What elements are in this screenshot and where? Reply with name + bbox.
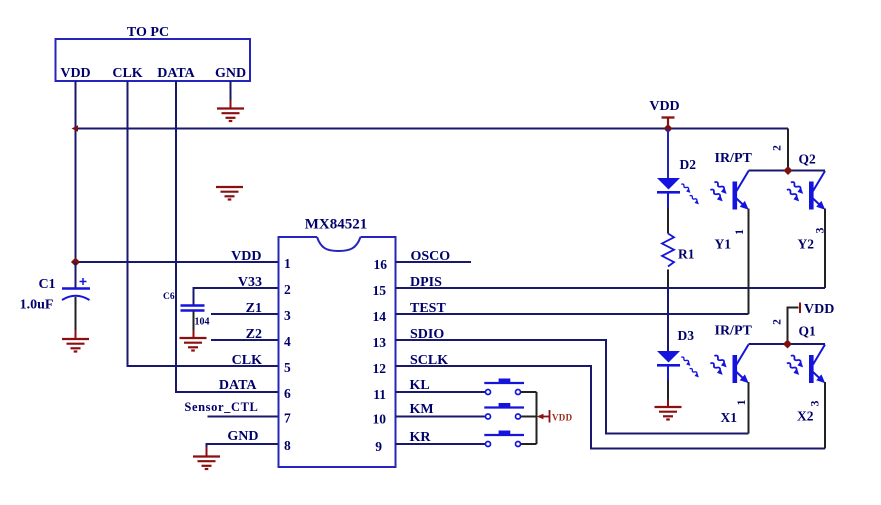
U1 pin numbers right: [373, 257, 388, 454]
svg-text:2: 2: [772, 319, 784, 325]
junction Q1 bus: [783, 339, 792, 348]
svg-text:104: 104: [195, 317, 210, 328]
wire VDD rail across top: [76, 128, 789, 130]
wire GND from U1 pin 8 to ground: [207, 444, 279, 448]
svg-text:8: 8: [284, 438, 291, 453]
wire button bus vertical: [536, 392, 538, 444]
wire D3 cathode to ground: [667, 366, 669, 407]
svg-text:3: 3: [810, 400, 822, 406]
wire Q2 riser from rail: [787, 129, 789, 171]
junction Q2 bus: [783, 166, 792, 175]
svg-text:D2: D2: [680, 157, 697, 172]
wire SDIO to X1 emitter: [396, 340, 749, 434]
phototransistor X1: [709, 345, 749, 384]
power VDD top right: [649, 99, 679, 129]
svg-text:Y2: Y2: [798, 237, 815, 252]
ground under C6: [180, 338, 207, 351]
svg-text:KL: KL: [410, 378, 430, 393]
ground under U1 pin 8: [193, 457, 220, 470]
wire V33 from U1 pin 2 to C6: [194, 288, 279, 305]
svg-text:IR/PT: IR/PT: [715, 151, 753, 166]
pushbutton KR: [484, 431, 524, 447]
svg-text:R1: R1: [678, 247, 695, 262]
op IC U1 MX84521 body: [279, 217, 396, 468]
svg-text:Z1: Z1: [246, 301, 262, 316]
ground under C1: [62, 339, 89, 352]
svg-text:VDD: VDD: [804, 302, 834, 317]
wire VDD from connector down to node A: [75, 81, 77, 262]
svg-text:6: 6: [284, 386, 291, 401]
connector J1 TO PC box: [56, 25, 251, 81]
diode D2: [657, 178, 701, 206]
svg-text:VDD: VDD: [231, 249, 261, 264]
svg-text:14: 14: [373, 309, 387, 324]
svg-text:1: 1: [734, 229, 746, 235]
svg-text:3: 3: [815, 227, 827, 233]
svg-text:1.0uF: 1.0uF: [20, 298, 54, 313]
svg-text:GND: GND: [215, 66, 246, 81]
svg-text:11: 11: [373, 387, 386, 402]
svg-text:VDD: VDD: [60, 66, 90, 81]
wire TEST to Y1 emitter: [396, 313, 749, 315]
svg-text:16: 16: [374, 257, 388, 272]
wire KM from U1 pin 10: [396, 416, 486, 418]
wire KR from U1 pin 9: [396, 443, 486, 445]
wire GND from connector down to ground: [230, 81, 232, 101]
power VDD at Q1: [788, 302, 835, 344]
junction VDD rail at D2: [663, 124, 672, 133]
wire DATA from connector down and right to U1 pin 6: [176, 81, 279, 392]
svg-text:1: 1: [736, 399, 748, 405]
svg-text:12: 12: [373, 361, 387, 376]
wire DPIS to Y2 emitter: [396, 287, 826, 289]
U1 left pin net labels: [184, 249, 262, 444]
phototransistor X2: [785, 345, 825, 384]
resistor R1: [662, 234, 674, 267]
svg-text:D3: D3: [678, 328, 695, 343]
wire CLK from connector down and right to U1 pin 5: [128, 81, 279, 366]
junction node A: [71, 257, 80, 266]
svg-text:Y1: Y1: [715, 237, 732, 252]
wire KR button to bus: [521, 443, 537, 445]
diode D3: [657, 351, 701, 379]
wire SCLK to X2 emitter: [396, 366, 826, 449]
svg-text:IR/PT: IR/PT: [715, 324, 753, 339]
svg-text:15: 15: [373, 283, 387, 298]
svg-text:GND: GND: [227, 429, 258, 444]
svg-text:C6: C6: [163, 292, 175, 302]
svg-text:DATA: DATA: [219, 378, 257, 393]
wire DPIS-cross to D3 anode: [667, 288, 669, 351]
pushbutton KM: [484, 403, 524, 419]
wire KL from U1 pin 11: [396, 391, 486, 393]
ground under D3: [655, 407, 682, 420]
svg-text:Sensor_CTL: Sensor_CTL: [184, 400, 258, 414]
svg-text:5: 5: [284, 360, 291, 375]
svg-text:X1: X1: [721, 410, 738, 425]
svg-text:1: 1: [284, 256, 291, 271]
wire Y1 emitter down to TEST: [748, 209, 750, 315]
svg-text:CLK: CLK: [232, 353, 262, 368]
svg-text:4: 4: [284, 334, 291, 349]
svg-text:TO PC: TO PC: [127, 25, 169, 40]
wire Sensor_CTL stub: [208, 416, 279, 418]
svg-text:X2: X2: [797, 409, 814, 424]
ground floating mid-left: [216, 187, 243, 200]
svg-text:C1: C1: [38, 277, 55, 292]
svg-text:KR: KR: [410, 430, 432, 445]
wire Y2 emitter down to DPIS: [824, 209, 826, 289]
ground under connector GND: [217, 109, 244, 122]
svg-text:DATA: DATA: [157, 66, 195, 81]
wire node A to U1 pin 1 VDD: [76, 261, 279, 263]
svg-text:10: 10: [373, 412, 387, 427]
arrow at left end of VDD rail: [72, 125, 79, 132]
pushbutton KL: [484, 379, 524, 395]
wire Z2 stub: [211, 339, 279, 341]
svg-text:9: 9: [375, 439, 382, 454]
svg-text:MX84521: MX84521: [305, 217, 368, 233]
svg-text:Q2: Q2: [799, 152, 817, 167]
power VDD arrow at buttons: [537, 410, 573, 423]
phototransistor Y2: [785, 171, 825, 210]
svg-text:Q1: Q1: [799, 324, 817, 339]
svg-text:2: 2: [284, 282, 291, 297]
svg-text:3: 3: [284, 308, 291, 323]
svg-text:13: 13: [373, 335, 387, 350]
U1 right pin net labels: [410, 249, 451, 445]
wire D2 cathode to R1: [667, 193, 669, 234]
wire D2 anode from rail: [667, 129, 669, 179]
wire Z1 stub: [211, 313, 279, 315]
svg-text:CLK: CLK: [112, 66, 142, 81]
svg-text:KM: KM: [410, 402, 434, 417]
svg-text:2: 2: [772, 145, 784, 151]
svg-text:V33: V33: [238, 275, 262, 290]
wire OSCO stub: [396, 261, 472, 263]
wire KL button to bus: [521, 391, 537, 393]
wire KM button to bus: [521, 416, 537, 418]
wire X1 emitter down to SDIO: [748, 382, 750, 434]
svg-text:Z2: Z2: [246, 327, 262, 342]
capacitor C1: [62, 262, 90, 339]
svg-text:VDD: VDD: [552, 413, 573, 423]
wire Q1 collector bus: [749, 343, 826, 345]
svg-text:7: 7: [284, 411, 291, 426]
U1 pin numbers left: [284, 256, 291, 453]
wire Q2 collector bus: [749, 170, 826, 172]
wire R1 to D3 anode: [667, 270, 669, 289]
phototransistor Y1: [709, 171, 749, 210]
capacitor C6: [181, 306, 205, 339]
wire X2 emitter down to SCLK: [824, 382, 826, 449]
svg-text:VDD: VDD: [649, 99, 679, 114]
